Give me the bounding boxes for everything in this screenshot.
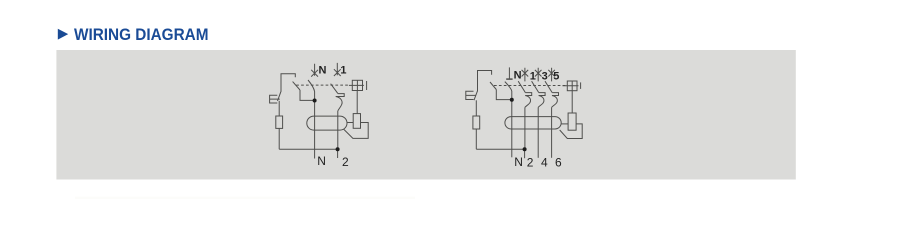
dashed linkage [296, 84, 349, 86]
handle staple wire [478, 71, 492, 92]
resistor R [276, 116, 283, 128]
bottom rail wire [476, 148, 524, 150]
terminal 1 [522, 68, 529, 82]
svg-text:1: 1 [530, 70, 536, 82]
junction dot N [510, 98, 514, 102]
test link wire [496, 90, 512, 100]
wire button to resistor [475, 100, 477, 116]
junction dot 2 [523, 147, 527, 151]
wire toroid to coil [347, 122, 353, 124]
pole 1 conductor [337, 111, 339, 149]
toroid CT [307, 116, 347, 130]
test box cross [563, 81, 579, 91]
svg-text:N: N [514, 70, 522, 82]
pole 1 conductor [524, 107, 526, 149]
secondary loop [344, 123, 369, 139]
test button blade [278, 91, 282, 101]
junction dot N [313, 99, 317, 103]
handle staple wire [281, 74, 295, 92]
secondary loop [560, 124, 583, 139]
svg-text:2: 2 [342, 155, 349, 169]
wire resistor to rail [278, 128, 280, 149]
svg-text:5: 5 [553, 71, 559, 83]
pole 3 coil hook [538, 93, 545, 108]
toroid CT [505, 117, 561, 129]
test link wire [300, 90, 315, 100]
resistor R [473, 116, 480, 129]
test button bracket [270, 95, 280, 103]
pole 5 coil hook [552, 93, 559, 108]
pole 5 conductor [551, 107, 553, 158]
trip coil [353, 114, 360, 129]
pole 5 blade [545, 81, 552, 92]
wire box to coil [356, 91, 358, 114]
pole N conductor [511, 91, 513, 157]
test box bar [366, 81, 368, 90]
gray panel [56, 50, 795, 180]
dashed linkage [494, 85, 567, 87]
bottom rail wire [279, 148, 337, 150]
svg-text:N: N [317, 154, 326, 168]
wire box to coil [571, 91, 573, 113]
svg-text:2: 2 [527, 155, 534, 169]
terminal 1 arrow [334, 63, 341, 76]
wire button to resistor [278, 101, 280, 116]
pole 3 conductor [537, 107, 539, 158]
svg-text:1: 1 [340, 64, 346, 76]
test box cross [349, 80, 364, 90]
test box [567, 81, 577, 91]
pole 3 blade [532, 81, 539, 92]
junction dot 2 [336, 147, 340, 151]
pole N blade [505, 82, 512, 91]
pole N blade [308, 80, 315, 92]
header arrow [58, 29, 68, 40]
svg-text:N: N [514, 155, 523, 169]
terminal 3 [535, 68, 542, 82]
faint cut-off text hint [75, 197, 415, 199]
svg-text:6: 6 [555, 155, 562, 169]
svg-text:WIRING DIAGRAM: WIRING DIAGRAM [74, 25, 209, 44]
svg-text:3: 3 [542, 71, 548, 83]
svg-text:4: 4 [541, 155, 548, 169]
test button blade [474, 91, 478, 100]
terminal N arrow [311, 64, 318, 77]
pole N conductor [314, 92, 316, 159]
wire resistor to rail [475, 129, 477, 149]
conductor 2 stub [524, 149, 526, 158]
pole 1 blade [331, 84, 338, 94]
svg-text:N: N [319, 65, 327, 77]
test box bar [580, 82, 582, 89]
wire toroid to coil [561, 123, 568, 125]
pole 1 coil hook [525, 93, 532, 108]
test link blade [490, 82, 496, 90]
test link blade [293, 82, 300, 90]
trip coil [568, 113, 576, 130]
test button bracket [466, 91, 476, 99]
pole 1 blade [518, 81, 525, 92]
terminal 5 [548, 68, 555, 82]
conductor 2 stub [337, 149, 339, 158]
test box [352, 80, 362, 90]
pole 1 coil hook [336, 94, 345, 111]
terminal N bar [508, 67, 510, 78]
